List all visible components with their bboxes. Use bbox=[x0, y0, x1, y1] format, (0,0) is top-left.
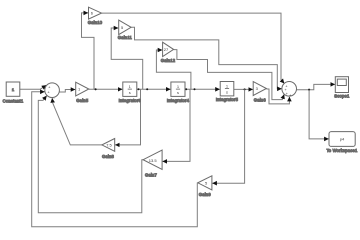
svg-text:Constant1: Constant1 bbox=[3, 98, 24, 103]
svg-text:7.5: 7.5 bbox=[106, 143, 112, 148]
svg-text:To Workspace1: To Workspace1 bbox=[326, 148, 358, 153]
svg-text:Gain11: Gain11 bbox=[118, 35, 133, 40]
svg-text:Gain5: Gain5 bbox=[76, 98, 89, 103]
wire branch up to Gain11 input bbox=[111, 28, 143, 89]
svg-text:s: s bbox=[226, 89, 228, 94]
svg-text:13.5: 13.5 bbox=[149, 158, 158, 163]
gain G7 (points left) bbox=[143, 150, 162, 177]
svg-text:Gain12: Gain12 bbox=[161, 58, 176, 63]
junction dot at Integrator5 output bbox=[244, 88, 246, 90]
junction dot at Integrator6 output bbox=[138, 88, 140, 90]
wire Gain11 output staircase to Sum2 left port bbox=[131, 27, 282, 89]
junction dot after Gain5 bbox=[95, 88, 97, 90]
svg-text:p4: p4 bbox=[340, 137, 345, 142]
svg-text:Integrator6: Integrator6 bbox=[119, 98, 142, 103]
gain G6 bbox=[253, 82, 266, 103]
svg-text:s: s bbox=[177, 90, 179, 95]
integrator block Integrator5 bbox=[216, 82, 239, 103]
wire Constant1 to Sum1 upper-left port bbox=[20, 85, 46, 89]
svg-text:Scope1: Scope1 bbox=[334, 93, 350, 98]
wire Gain9 output feedback along bottom to Sum1 left port bbox=[32, 92, 198, 227]
wire Gain12 output staircase to Sum2 lower-left port bbox=[174, 50, 285, 100]
svg-text:Gain6: Gain6 bbox=[254, 97, 267, 102]
wire Gain5 output to Integrator6 bbox=[89, 88, 123, 90]
junction dot after Sum2 bbox=[308, 89, 310, 91]
wire Gain7 output feedback to Sum1 lower-left port bbox=[38, 96, 143, 213]
wire branch down to Gain7 input bbox=[163, 89, 190, 161]
to-workspace block To Workspace1 bbox=[326, 132, 358, 153]
integrator block Integrator6 bbox=[119, 82, 142, 103]
wire Integrator6 output to Integrator4 bbox=[137, 88, 171, 90]
gain G10 bbox=[88, 7, 103, 25]
svg-text:s: s bbox=[129, 90, 131, 95]
wire Integrator5 output to Gain6 bbox=[234, 88, 253, 90]
wire Integrator4 output to Integrator5 bbox=[185, 88, 220, 90]
wire Sum2 output to Scope1 bbox=[296, 84, 335, 89]
wire branch down to Gain8 input bbox=[115, 89, 140, 145]
wire Gain8 output diagonal to Sum1 bottom port bbox=[52, 98, 102, 145]
integrator block Integrator4 bbox=[167, 82, 190, 103]
constant block Constant1 bbox=[3, 82, 24, 103]
gain G9 (points left) bbox=[198, 176, 212, 197]
wire branch up to Gain10 bbox=[82, 13, 95, 89]
svg-text:Gain8: Gain8 bbox=[102, 154, 115, 159]
junction dot at Integrator4 output bbox=[185, 88, 187, 90]
sum junction S1 bbox=[45, 83, 60, 100]
gain G5 bbox=[76, 82, 89, 103]
svg-text:Gain10: Gain10 bbox=[88, 20, 103, 25]
wire Gain6 output around to Sum2 bottom port bbox=[266, 89, 289, 104]
svg-text:Integrator4: Integrator4 bbox=[167, 98, 190, 103]
junction dot before Integrator5 bbox=[194, 88, 196, 90]
gain G8 (points left) bbox=[102, 139, 115, 160]
wire branch down to Gain9 input bbox=[212, 89, 244, 183]
svg-text:Gain9: Gain9 bbox=[199, 192, 212, 197]
wire Gain10 output to Sum2 upper-left port bbox=[102, 13, 285, 83]
gain G11 bbox=[118, 20, 133, 40]
gain G12 bbox=[161, 42, 176, 63]
junction dot before Integrator4 bbox=[146, 88, 148, 90]
wire branch up to Gain12 input bbox=[156, 50, 191, 89]
scope block Scope1 bbox=[334, 77, 350, 99]
svg-text:Integrator5: Integrator5 bbox=[216, 97, 239, 102]
wire branch down to To Workspace1 bbox=[309, 90, 329, 139]
svg-text:Gain7: Gain7 bbox=[145, 172, 158, 177]
wire Sum1 output to Gain5 bbox=[59, 90, 75, 93]
sum junction S2 bbox=[282, 82, 297, 98]
svg-text:27: 27 bbox=[164, 47, 169, 52]
